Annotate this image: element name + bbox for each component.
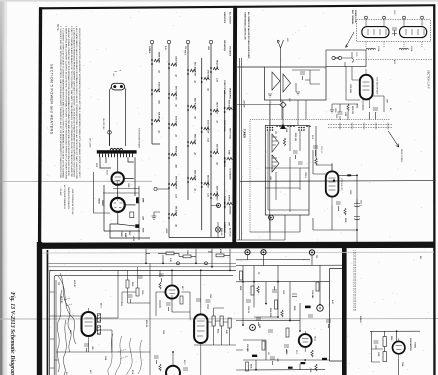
fine tuning dashed shaft B (328, 127, 392, 129)
balun terminal 4 (421, 16, 424, 19)
pilot lamp circle (108, 131, 112, 135)
mid zigzag resistors (257, 286, 313, 357)
RF input shield box (265, 67, 327, 100)
heater terminal circle (154, 187, 157, 190)
bus line AGC (48, 266, 236, 268)
svg-text:4BZ6: 4BZ6 (189, 316, 191, 320)
svg-text:R204: R204 (311, 135, 313, 139)
svg-text:R142 470K: R142 470K (269, 308, 272, 318)
coil L200A squiggle (366, 48, 376, 49)
svg-text:470K: 470K (219, 249, 222, 254)
scan left edge dark strip (0, 0, 1, 1)
svg-text:12AU7 SYNC: 12AU7 SYNC (175, 56, 178, 68)
svg-text:VOLTAGES: VOLTAGES (229, 46, 232, 57)
osc component cluster (336, 202, 346, 215)
svg-text:6BZ7 R-F AMP: 6BZ7 R-F AMP (194, 98, 197, 111)
V106 left resistor a (383, 337, 386, 347)
1st IF tube V101 circle (165, 285, 178, 298)
turret labels (269, 128, 306, 180)
narrow box left of divider (330, 269, 343, 362)
feed lines beside divider (239, 58, 241, 240)
svg-text:AC VOLTAGE READINGS: AC VOLTAGE READINGS (63, 185, 66, 210)
heater 6U8 (154, 119, 160, 122)
svg-text:L118: L118 (104, 356, 106, 360)
antenna balun dashed box (357, 20, 431, 42)
V201 grid marks (363, 69, 370, 108)
V105 internals (302, 331, 309, 352)
test point TP A (245, 250, 250, 255)
svg-text:WITH VTVM: WITH VTVM (229, 128, 231, 139)
pilot wires (211, 206, 218, 239)
svg-text:L200A: L200A (377, 46, 380, 52)
frame left border upper (38, 7, 42, 243)
turret cap C204 (298, 162, 303, 164)
svg-text:+15,-25: +15,-25 (243, 100, 245, 108)
svg-text:L201A: L201A (410, 46, 413, 52)
svg-text:C207: C207 (335, 114, 337, 118)
svg-text:1B3 H-V RECT: 1B3 H-V RECT (216, 102, 218, 115)
svg-text:ANT. TERMINAL: ANT. TERMINAL (351, 10, 354, 25)
bottom row labels (250, 358, 279, 368)
fold line below divider (42, 251, 434, 254)
svg-text:CONN TOP CAP: CONN TOP CAP (223, 80, 226, 95)
callout arrow (346, 32, 355, 48)
svg-text:SHIELD: SHIELD (359, 316, 361, 323)
svg-text:6CD6 HOR OUT: 6CD6 HOR OUT (207, 120, 209, 134)
svg-text:C121: C121 (120, 302, 122, 306)
mid junction dots (242, 281, 244, 283)
row stubs to divider (146, 249, 230, 271)
svg-text:6BZ6 2ND IF: 6BZ6 2ND IF (194, 134, 196, 145)
svg-text:SPEAKER: SPEAKER (223, 158, 226, 168)
heater fuse (227, 157, 233, 160)
svg-text:6U8 3RD IF: 6U8 3RD IF (158, 112, 160, 122)
rectifier shield outline (94, 172, 111, 213)
heater 6AV6 (213, 193, 219, 196)
balun center caps (392, 28, 397, 36)
V202 grid marks (329, 163, 336, 204)
svg-text:TAKEN WITH CHASSIS: TAKEN WITH CHASSIS (67, 187, 70, 210)
svg-text:45.0: 45.0 (89, 370, 92, 373)
svg-text:.005: .005 (276, 358, 278, 362)
hatched slug resistor b (97, 326, 100, 334)
tuner misc labels (334, 108, 392, 116)
bus terminal circle a (177, 262, 180, 265)
transformer T300 primary winding loops (110, 148, 123, 150)
heater bottom tie (152, 144, 225, 238)
svg-text:6AV6 1ST AUDIO: 6AV6 1ST AUDIO (216, 186, 219, 201)
shielded cable ladder (354, 250, 356, 311)
V106 top wire (370, 331, 420, 341)
mid electrolytic black b (252, 355, 257, 357)
filter choke blob (135, 224, 139, 228)
plug prong left (113, 85, 116, 88)
2nd IF tube V103 obround (194, 314, 207, 343)
misc bottom-left labels (57, 282, 164, 360)
mid-left cluster wires (122, 267, 150, 303)
svg-text:L205: L205 (269, 176, 271, 180)
svg-text:VOLUME: VOLUME (246, 344, 248, 352)
chain top terminals (150, 40, 212, 43)
balun internals left (366, 19, 424, 35)
svg-text:C200: C200 (355, 52, 357, 56)
svg-text:6BZ6 3RD IF: 6BZ6 3RD IF (194, 170, 196, 181)
svg-text:10W: 10W (228, 222, 230, 226)
mid bus wires (236, 255, 342, 370)
svg-text:... OF ANY: ... OF ANY (59, 186, 62, 196)
wires around V101 (150, 263, 190, 375)
svg-text:YOKE PLUG: YOKE PLUG (223, 120, 225, 132)
svg-text:1. VOLTAGES WILL VARY WITH: 1. VOLTAGES WILL VARY WITH CONTROL SETTI… (59, 26, 62, 178)
svg-text:SECTION 1 R-F: SECTION 1 R-F (427, 70, 431, 89)
svg-text:5W4GT: 5W4GT (101, 200, 104, 207)
discr test circle (317, 305, 323, 311)
V104 left components (154, 356, 161, 371)
V103 right wires (194, 308, 236, 375)
heater bus 1 (151, 44, 153, 144)
svg-text:PHONO JACK: PHONO JACK (223, 196, 226, 209)
wires below turret box (237, 215, 300, 240)
labels osc (344, 190, 362, 222)
mid electrolytic black a (305, 306, 311, 309)
frame left border lower thick (37, 242, 42, 375)
rectifier inter-wires (103, 186, 139, 240)
svg-text:6W6 VERT OUT: 6W6 VERT OUT (175, 176, 177, 190)
svg-text:INTERLOCK: INTERLOCK (223, 222, 225, 234)
svg-text:R160: R160 (390, 336, 392, 340)
divider-left text column 1 (223, 12, 232, 237)
rf bypass caps right (370, 107, 379, 117)
svg-text:AC PLUG: AC PLUG (229, 228, 232, 237)
V103 labels (209, 294, 227, 334)
mid resistor boxes (240, 271, 320, 350)
heater 6BZ7 (190, 105, 196, 108)
twin lead wires (334, 52, 354, 67)
svg-text:AGC: AGC (393, 60, 396, 65)
heater 21YP4 kine (227, 107, 233, 110)
V106 left wires (372, 331, 399, 375)
tuner notes column (243, 12, 251, 138)
heater bus 6 (224, 90, 226, 238)
mid caps (246, 286, 331, 353)
test point near divider (217, 204, 221, 208)
svg-text:C147: C147 (209, 294, 212, 298)
svg-text:TUNER: TUNER (243, 129, 247, 138)
svg-text:45.75 MC: 45.75 MC (60, 296, 63, 304)
svg-text:6AQ5: 6AQ5 (314, 336, 317, 341)
svg-text:6AX4 DAMPER: 6AX4 DAMPER (207, 175, 210, 188)
wire to shield box top (237, 66, 264, 68)
svg-text:.005: .005 (91, 346, 93, 350)
V102 bottom cap (84, 344, 89, 352)
left border wire stubs (50, 292, 59, 368)
svg-text:R156: R156 (250, 364, 252, 368)
V104 right cap (183, 368, 188, 370)
svg-text:47: 47 (389, 108, 392, 110)
svg-text:C118: C118 (141, 290, 143, 294)
svg-text:TUNER SERIAL CODE NO. 300: TUNER SERIAL CODE NO. 300 (244, 12, 247, 40)
heater 12AU7 (171, 63, 177, 66)
contact dot row along turret top (276, 126, 310, 127)
svg-text:NOTE:: NOTE: (56, 24, 58, 31)
svg-text:C206 1000: C206 1000 (349, 84, 351, 93)
row labels (169, 249, 222, 262)
line to pilot (109, 134, 111, 146)
svg-text:4DT6: 4DT6 (183, 360, 185, 365)
plug prong right (120, 85, 123, 88)
svg-text:6S4 VERT: 6S4 VERT (216, 144, 219, 153)
svg-text:+275V: +275V (132, 236, 134, 242)
osc coil slug (black) (347, 174, 351, 176)
response curves group B (108, 334, 142, 375)
svg-text:TO CHASSIS: TO CHASSIS (229, 168, 232, 180)
pilot lamp symbol (215, 227, 220, 232)
svg-text:ALL SOCKET: ALL SOCKET (229, 12, 232, 25)
test point TP C (309, 250, 314, 255)
tuner enclosure dashed (250, 120, 390, 233)
svg-text:300Ω: 300Ω (393, 10, 395, 15)
svg-text:+135V: +135V (165, 228, 167, 234)
osc wires (313, 126, 357, 242)
svg-text:R140: R140 (239, 286, 242, 290)
rectifier tube V301 (112, 172, 124, 184)
fold line across page lower (0, 318, 438, 320)
svg-text:6CB6 1ST IF: 6CB6 1ST IF (158, 82, 160, 93)
component row under divider (166, 252, 224, 258)
svg-text:C150 .01: C150 .01 (247, 306, 249, 313)
heater 6SN7 (171, 93, 177, 96)
heater 6W6 (171, 183, 177, 186)
wafer contact dots row B (298, 127, 305, 131)
turret resistor R201 (283, 138, 285, 146)
shield box ground 1 (268, 94, 272, 97)
wafer diamond symbol (280, 102, 286, 108)
heater 6AU8 (171, 153, 177, 156)
svg-text:T:500Ω: T:500Ω (414, 342, 416, 348)
mid electrolytic black d (322, 358, 327, 360)
svg-text:L140: L140 (258, 324, 261, 328)
svg-text:6SN7 VERT OSC: 6SN7 VERT OSC (175, 86, 177, 101)
svg-text:6BQ6 HOR: 6BQ6 HOR (216, 60, 218, 70)
svg-text:LM-C-0347: LM-C-0347 (89, 138, 91, 147)
nested box inner (54, 275, 233, 375)
shield box wires (292, 70, 320, 92)
svg-text:R203 220: R203 220 (351, 106, 353, 114)
svg-text:5U4G: 5U4G (106, 170, 108, 176)
V201 side labels (349, 60, 396, 108)
svg-text:41.25 MC: 41.25 MC (73, 280, 76, 288)
heater 6K6 (171, 213, 177, 216)
svg-text:L300: L300 (142, 216, 144, 220)
svg-text:26AXB: 26AXB (98, 198, 101, 204)
svg-text:6AU8 AGC: 6AU8 AGC (175, 146, 178, 156)
svg-text:C217 3: C217 3 (360, 200, 362, 206)
svg-text:R202: R202 (356, 104, 358, 108)
svg-text:4. ALL CAPACITANCE VALUES: 4. ALL CAPACITANCE VALUES IN MFD AND RES… (75, 26, 78, 180)
bus line heater (48, 269, 236, 271)
V101 stem up (171, 270, 173, 312)
svg-text:L209: L209 (344, 112, 346, 116)
drive screw arrow (388, 131, 399, 147)
svg-text:6W4 DAMPER: 6W4 DAMPER (409, 338, 412, 351)
heater bus 3 (187, 44, 189, 200)
V106 left cap (374, 341, 379, 349)
heater 6S4 (213, 151, 219, 154)
heater 6CB6 (154, 89, 160, 92)
wires around V102 (56, 270, 150, 375)
svg-text:R208: R208 (344, 218, 346, 222)
heater surge resistor (227, 202, 233, 205)
interlock plug P300 (111, 83, 124, 90)
V101 left components (159, 274, 164, 289)
svg-text:C205 5: C205 5 (304, 172, 306, 178)
svg-text:R302: R302 (128, 231, 130, 235)
transformer T300 core bar (97, 150, 137, 153)
svg-text:C131: C131 (162, 330, 164, 334)
heater 6AW8 (154, 59, 160, 62)
V301 internal pins (115, 177, 122, 184)
svg-text:PIN 4: PIN 4 (184, 50, 187, 55)
heater bus 2 (168, 44, 170, 238)
scan top edge grey line (0, 0, 438, 2)
bottom row blob (288, 367, 293, 369)
small cap block (130, 212, 134, 218)
antenna terminal board box (326, 50, 366, 67)
balun terminal 1 (365, 16, 368, 19)
balun terminal 3 (403, 16, 406, 19)
bottom-left section inner border (47, 250, 49, 375)
V201 cluster labels (335, 106, 353, 118)
turret cap C203 (293, 151, 298, 159)
svg-text:UNLESS OTHERWISE NOTED. ALI: UNLESS OTHERWISE NOTED. ALIGNMENT INFORM… (78, 28, 81, 179)
svg-text:MEASURED: MEASURED (229, 88, 232, 99)
svg-text:WHEN NO SIGNAL CONDITIONS: WHEN NO SIGNAL CONDITIONS SET FOR NORMAL… (67, 28, 70, 177)
turret coil triangle 1 (272, 134, 279, 152)
long IF output wire (240, 180, 433, 183)
IF transformer tube (1st IF) V102 obround (82, 312, 96, 336)
svg-text:4BZ6: 4BZ6 (100, 303, 102, 308)
heater 6AX4 (204, 182, 210, 185)
shaft tick marks (340, 123, 388, 130)
svg-text:6T8 DISCR: 6T8 DISCR (207, 70, 209, 80)
osc junction dot (356, 174, 358, 176)
bus line B+ (48, 262, 236, 264)
svg-text:SECTION 5 POWER and HEATERS: SECTION 5 POWER and HEATERS (50, 64, 54, 135)
hatched slug resistor a (97, 314, 100, 322)
mid labels (239, 255, 334, 372)
mixer test point circle (269, 215, 274, 220)
svg-text:6.3 VAC READINGS MEASURED P: 6.3 VAC READINGS MEASURED PERIOD DAMPER … (73, 28, 76, 178)
svg-text:6K6 AUDIO: 6K6 AUDIO (175, 206, 178, 216)
RF amp V201 tube (360, 75, 373, 100)
svg-text:R131: R131 (217, 329, 219, 333)
wires transformer to rectifier tubes (100, 157, 140, 231)
V103 internals (197, 308, 205, 349)
svg-text:R152: R152 (295, 350, 297, 354)
mixer grid cap (313, 146, 318, 156)
mid-left component cluster (126, 276, 143, 303)
V102 internals (85, 308, 93, 341)
mid electrolytic black c (301, 362, 306, 364)
svg-text:V202 6J6 OSC: V202 6J6 OSC (340, 178, 342, 191)
balun terminal 2 (383, 16, 386, 19)
rf wires right (363, 105, 376, 120)
agc dashed feed (356, 59, 432, 61)
svg-text:C168: C168 (401, 362, 403, 366)
svg-text:TP1: TP1 (57, 282, 59, 285)
V302 internal pins (114, 198, 123, 208)
svg-text:6AL5 RATIO DET: 6AL5 RATIO DET (194, 62, 197, 77)
svg-text:3. PARTS TOLERANCE AND REA: 3. PARTS TOLERANCE AND READINGS OF TEST … (70, 26, 73, 178)
svg-text:R114: R114 (131, 282, 134, 286)
V103 right resistor chain a (212, 316, 215, 326)
shield box ground 2 (296, 92, 300, 95)
svg-text:T CONTRAST CONTROL AT VOLTA: T CONTRAST CONTROL AT VOLTAGE TO CHASSIS… (62, 28, 65, 179)
plug top label marks (115, 71, 122, 72)
section vertical divider (power / tuner) (232, 6, 237, 248)
sound takeoff coil circle (250, 325, 256, 331)
svg-text:42.5: 42.5 (69, 330, 72, 333)
svg-text:DRIVE SCREW: DRIVE SCREW (400, 149, 402, 163)
transformer secondary teeth (100, 154, 133, 158)
svg-text:LINE VOLTAGE AT 117V AC: LINE VOLTAGE AT 117V AC (71, 189, 74, 215)
mid-left cluster labels (65, 282, 143, 375)
mid fold-crossing wire (236, 319, 300, 321)
balun coil left (362, 27, 389, 38)
fine tuning dashed shaft A (328, 123, 392, 125)
bus terminal circle b (205, 262, 208, 265)
fold line across page upper (0, 180, 152, 182)
filter cap C300 black (136, 197, 139, 203)
bottom section vertical divider (342, 247, 347, 375)
heater 6T8 (204, 77, 210, 80)
svg-text:C152: C152 (282, 290, 284, 294)
shield box caps (300, 72, 310, 80)
heater 6BZ6 b (190, 177, 196, 180)
drop wire to wafer (237, 48, 280, 105)
svg-text:Fig. 13 V-2313 Schematic Dia: Fig. 13 V-2313 Schematic Diagram (9, 292, 15, 375)
svg-text:W 1: W 1 (419, 256, 421, 259)
svg-text:SYMBOL: SYMBOL (148, 46, 150, 55)
svg-text:6AW8 VIDEO: 6AW8 VIDEO (158, 52, 161, 64)
V101 internals (169, 285, 176, 299)
svg-text:2. MEAS TO FULL AND CONTR: 2. MEAS TO FULL AND CONTRAST CONTROL IN … (64, 26, 67, 180)
nested box outer (50, 270, 236, 375)
antenna fork symbol (278, 40, 284, 48)
wafer drop to turret (270, 105, 283, 233)
curve labels A (60, 280, 76, 333)
value labels near power cluster (95, 163, 145, 242)
svg-text:TP2: TP2 (315, 255, 317, 258)
rectifier tube V302 (111, 198, 125, 212)
wafer contact dots row A (267, 127, 274, 131)
V103 upper caps (196, 299, 211, 309)
svg-text:R304: R304 (142, 228, 145, 232)
heater 6BQ6 (213, 67, 219, 70)
svg-text:FUSE: FUSE (228, 150, 230, 156)
V103 stem up (200, 270, 202, 308)
svg-text:C300: C300 (127, 183, 129, 187)
audio det tube V104 (cut at bottom) (166, 366, 180, 375)
antenna callout text (351, 10, 357, 25)
svg-text:C140: C140 (186, 250, 189, 254)
frame right border (433, 4, 436, 375)
heater 6AL5 (190, 69, 196, 72)
svg-text:R148: R148 (293, 306, 296, 310)
heater chain tube labels (148, 46, 230, 235)
svg-text:V201 6BC5 RF AMP: V201 6BC5 RF AMP (376, 77, 379, 95)
audio out tube V105 (299, 334, 312, 347)
